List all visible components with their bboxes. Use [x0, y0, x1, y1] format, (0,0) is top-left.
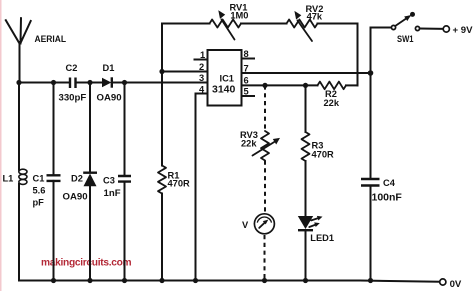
svg-text:5.6: 5.6	[33, 186, 46, 196]
node RV3 branch junction	[262, 83, 267, 88]
resistor R1	[158, 166, 190, 194]
svg-text:5: 5	[244, 87, 249, 97]
feedback vertical wire (top rail to pin2 to R1 to 0V)	[161, 24, 163, 281]
svg-text:47k: 47k	[307, 11, 323, 21]
terminal +9V	[420, 25, 473, 36]
watermark makingcircuits.com	[41, 258, 132, 269]
node D2 bottom	[87, 278, 92, 283]
node R1 bottom	[159, 278, 164, 283]
svg-text:2: 2	[199, 62, 204, 72]
svg-text:SW1: SW1	[397, 34, 414, 44]
wire top rail right drop to R2	[357, 24, 359, 86]
pin 5 stub	[242, 87, 255, 97]
capacitor C1 branch wire	[53, 83, 55, 281]
pin 2 number	[199, 62, 204, 72]
wire dashed meter to 0V rail	[264, 235, 266, 281]
capacitor C3	[103, 175, 131, 199]
capacitor C1	[33, 174, 61, 208]
svg-text:C3: C3	[103, 175, 115, 185]
node pin4 bottom	[193, 278, 198, 283]
pin 6 number	[244, 75, 249, 85]
svg-text:470R: 470R	[312, 149, 335, 159]
inductor L1	[3, 169, 28, 184]
node C1 top junction	[51, 80, 56, 85]
capacitor C3 branch wire	[124, 83, 126, 281]
svg-text:IC1: IC1	[220, 73, 234, 83]
svg-text:+ 9V: + 9V	[453, 25, 474, 36]
potentiometer RV2	[287, 4, 324, 41]
wire dashed RV3 to meter	[264, 161, 266, 215]
svg-text:8: 8	[244, 49, 249, 59]
svg-text:C1: C1	[33, 174, 45, 184]
diode D1	[97, 63, 122, 104]
terminal 0V	[440, 279, 462, 290]
svg-text:7: 7	[244, 63, 249, 73]
wire pin 2 link	[162, 71, 208, 73]
node pin2 junction	[159, 69, 164, 74]
svg-text:3: 3	[199, 73, 204, 83]
potentiometer RV3 (dashed drive to meter)	[240, 85, 280, 160]
capacitor C4	[361, 178, 402, 204]
resistor R2	[318, 82, 358, 108]
svg-text:330pF: 330pF	[59, 93, 87, 104]
svg-text:makingcircuits.com: makingcircuits.com	[41, 258, 132, 269]
svg-text:AERIAL: AERIAL	[35, 34, 67, 44]
wire pin 4 to 0V rail	[196, 94, 208, 281]
left vertical wire with L1 to 0V rail	[18, 83, 20, 281]
wire 0V bottom rail	[19, 281, 439, 282]
svg-text:1nF: 1nF	[104, 188, 121, 199]
wire SW1 feed from supply line	[371, 27, 391, 29]
svg-text:0V: 0V	[450, 279, 462, 290]
potentiometer RV1	[210, 2, 249, 39]
svg-text:22k: 22k	[241, 139, 257, 149]
capacitor C2	[59, 63, 87, 104]
svg-text:OA90: OA90	[97, 93, 122, 104]
resistor R3	[302, 132, 335, 161]
svg-text:1M0: 1M0	[230, 11, 248, 21]
svg-text:22k: 22k	[324, 98, 340, 108]
svg-text:6: 6	[244, 75, 249, 85]
pin 1 stub	[195, 50, 208, 60]
supply vertical wire (SW1 to pin7 junction to C4 to 0V rail)	[370, 28, 372, 281]
wire pin 6 output line	[242, 84, 318, 86]
wire aerial input line (signal line to pin 3)	[19, 82, 208, 84]
svg-text:470R: 470R	[168, 178, 191, 188]
svg-text:1: 1	[200, 50, 205, 60]
op-amp IC1	[208, 50, 242, 106]
pin 3 number	[199, 73, 204, 83]
pin 8 stub	[242, 49, 255, 59]
scan artifact left edge	[0, 0, 2, 291]
node R3 branch junction	[303, 83, 308, 88]
node pin 7 supply junction	[368, 70, 374, 76]
wire R3/LED branch	[305, 85, 307, 280]
switch SW1	[391, 12, 419, 44]
svg-text:V: V	[242, 220, 249, 230]
node D2 top junction	[87, 80, 92, 85]
node LED bottom	[303, 278, 308, 283]
node aerial junction	[16, 80, 21, 85]
svg-text:C2: C2	[66, 63, 78, 73]
svg-text:3140: 3140	[212, 83, 236, 95]
svg-text:L1: L1	[3, 174, 14, 184]
svg-text:LED1: LED1	[310, 233, 334, 243]
svg-text:D1: D1	[103, 63, 115, 73]
node C3 bottom	[122, 278, 127, 283]
svg-text:pF: pF	[33, 198, 45, 208]
pin 7 number	[244, 63, 249, 73]
node C4 bottom	[368, 278, 373, 283]
svg-text:C4: C4	[383, 178, 396, 188]
wire top rail	[162, 23, 358, 25]
meter V	[242, 214, 274, 234]
aerial antenna	[6, 18, 66, 82]
node C1 bottom	[51, 278, 56, 283]
pin 4 number	[199, 84, 205, 94]
svg-text:OA90: OA90	[63, 191, 88, 202]
diode D2	[63, 173, 98, 203]
wire pin 7 to supply line	[242, 72, 371, 74]
svg-text:D2: D2	[71, 174, 83, 184]
node C3 top junction	[122, 80, 127, 85]
diode D2 branch wire	[89, 83, 91, 281]
svg-text:100nF: 100nF	[372, 192, 403, 204]
node meter bottom	[262, 278, 267, 283]
svg-text:4: 4	[199, 84, 205, 94]
LED LED1	[298, 216, 334, 243]
